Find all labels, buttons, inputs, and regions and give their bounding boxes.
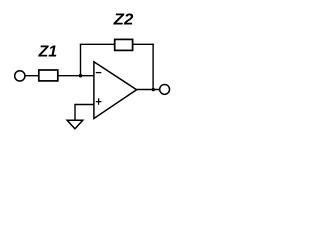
output terminal [160,84,170,94]
op-amp non-inverting input marker [96,98,102,104]
wire [152,44,154,90]
wire [75,104,94,106]
input terminal [15,71,25,81]
ground [67,120,83,129]
wire [74,104,76,120]
wire [137,89,160,91]
node output junction [152,88,155,91]
wire [80,44,82,75]
wire [58,75,94,77]
svg-text:Z2: Z2 [113,11,134,28]
wire [25,75,39,77]
op-amp inverting input marker [96,72,102,74]
node inverting-input junction [79,74,83,78]
op-amp U1 [94,62,137,119]
wire [80,43,115,45]
impedance Z2 [115,39,133,50]
wire [133,43,154,45]
impedance Z1 [39,70,58,81]
svg-text:Z1: Z1 [38,44,58,61]
